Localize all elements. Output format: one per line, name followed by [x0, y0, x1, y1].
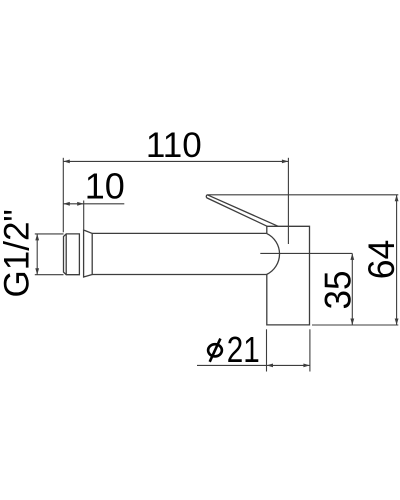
svg-text:21: 21: [227, 329, 260, 370]
dim 35 dimension line: [351, 253, 353, 325]
arrow dim110 left: [63, 160, 70, 164]
spout end cap arc: [267, 233, 280, 274]
dim 110 dimension line: [63, 160, 288, 162]
dim 21 left extension line: [266, 329, 268, 371]
dim 64 bottom extension line: [312, 324, 398, 326]
arrow dimG12 top: [35, 234, 39, 241]
dim 21 right extension line: [309, 329, 311, 371]
dim G1/2 top extension line: [35, 233, 64, 235]
svg-text:10: 10: [85, 166, 125, 207]
dim 64 dimension line: [396, 195, 398, 325]
dim 21 dimension line: [197, 364, 310, 366]
arrow dim35 bottom: [350, 319, 354, 326]
svg-text:35: 35: [317, 271, 358, 310]
arrow dimG12 bottom: [35, 268, 39, 275]
dim 110 left extension line: [62, 158, 64, 233]
diameter symbol slash: [210, 339, 221, 362]
dim G1/2 dimension line: [36, 234, 38, 275]
arrow dim35 top: [350, 253, 354, 260]
arrow dim10 right: [77, 202, 84, 206]
dim 110 right extension line: [287, 158, 289, 244]
spout tube top edge: [92, 232, 266, 234]
arrow dim110 right: [282, 160, 289, 164]
lever handle blade: [206, 195, 278, 227]
fitting collar cone: [84, 230, 93, 277]
arrow dim64 top: [395, 195, 399, 202]
svg-text:64: 64: [360, 240, 400, 280]
arrow dim21 right: [303, 364, 310, 368]
wall fitting G1/2 threaded body: [64, 234, 80, 275]
dim 64 top extension line: [208, 194, 398, 196]
dim G1/2 bottom extension line: [35, 274, 64, 276]
arrow dim21 left: [267, 364, 274, 368]
centerline of spout: [260, 252, 352, 254]
fitting thread end face inner line: [65, 234, 67, 275]
arrow dim64 bottom: [395, 319, 399, 326]
valve body outline: [267, 226, 310, 325]
spout tube bottom edge: [92, 274, 266, 276]
svg-text:110: 110: [146, 126, 202, 165]
diameter symbol circle: [208, 344, 222, 356]
svg-text:G1/2": G1/2": [0, 209, 36, 297]
dim 10 dimension line: [63, 203, 124, 205]
dim 10 right extension line: [83, 201, 85, 230]
arrow dim10 left: [63, 202, 70, 206]
